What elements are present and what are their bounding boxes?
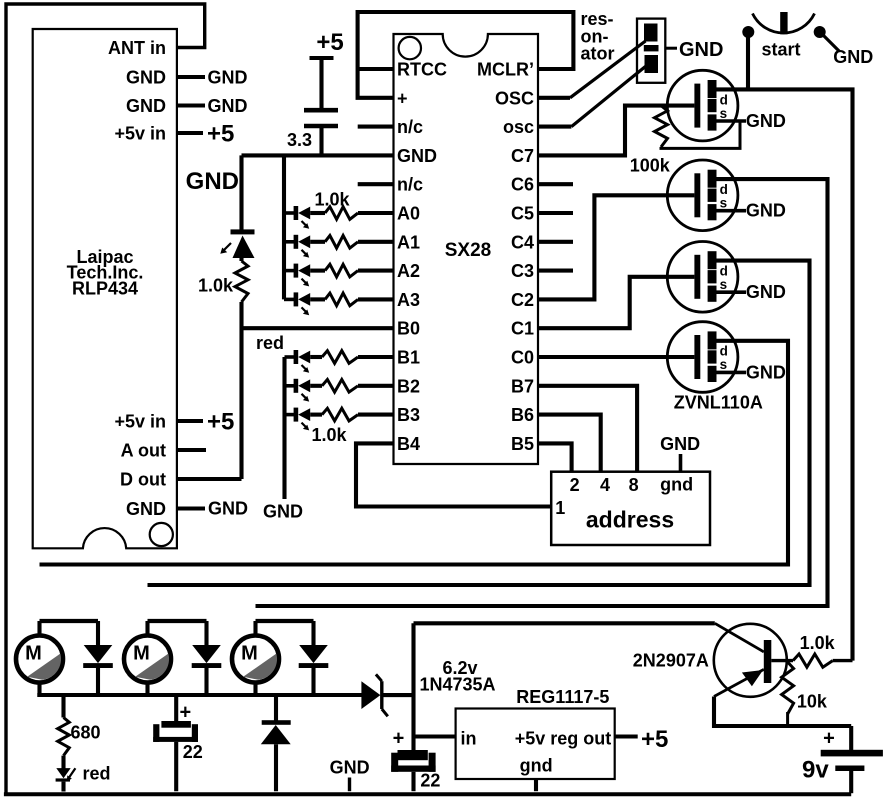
svg-text:GND: GND [679,39,723,61]
svg-text:GND: GND [208,96,248,116]
svg-text:+5v in: +5v in [114,412,166,432]
svg-text:A0: A0 [397,204,420,224]
svg-text:red: red [256,333,284,353]
svg-text:+: + [397,88,408,108]
svg-text:C7: C7 [511,146,534,166]
svg-text:ANT in: ANT in [108,38,166,58]
svg-text:+5v in: +5v in [114,124,166,144]
svg-text:GND: GND [397,146,437,166]
svg-text:REG1117-5: REG1117-5 [516,687,609,707]
svg-text:GND: GND [263,502,303,522]
svg-text:+5: +5 [641,726,668,753]
svg-text:+: + [393,728,405,750]
svg-text:GND: GND [746,201,786,221]
svg-text:9v: 9v [802,757,829,784]
svg-text:8: 8 [629,475,639,495]
svg-text:B3: B3 [397,405,420,425]
svg-text:s: s [720,277,728,292]
svg-text:C0: C0 [511,348,534,368]
svg-text:+5: +5 [207,121,234,148]
svg-text:GND: GND [208,68,248,88]
svg-text:1.0k: 1.0k [800,633,836,653]
svg-text:A1: A1 [397,232,420,252]
svg-text:osc: osc [503,117,534,137]
svg-text:C3: C3 [511,261,534,281]
svg-text:+5: +5 [316,29,343,56]
svg-text:C2: C2 [511,290,534,310]
svg-text:M: M [25,642,42,664]
svg-text:GND: GND [330,758,370,778]
svg-text:s: s [720,196,728,211]
svg-text:3.3: 3.3 [287,130,312,150]
svg-text:s: s [720,357,728,372]
svg-text:2: 2 [570,475,580,495]
svg-text:B7: B7 [511,376,534,396]
svg-text:4: 4 [600,475,610,495]
svg-text:s: s [720,106,728,121]
svg-text:+: + [179,702,191,724]
svg-text:D out: D out [120,470,166,490]
svg-text:A3: A3 [397,290,420,310]
svg-text:GND: GND [208,499,248,519]
svg-text:GND: GND [833,47,873,67]
svg-text:M: M [241,642,258,664]
svg-text:address: address [586,507,674,533]
svg-text:22: 22 [420,771,440,791]
svg-text:B4: B4 [397,434,420,454]
svg-text:GND: GND [746,111,786,131]
svg-text:1.0k: 1.0k [311,425,347,445]
svg-text:B1: B1 [397,348,420,368]
svg-text:GND: GND [746,362,786,382]
svg-text:SX28: SX28 [445,240,491,261]
svg-text:OSC: OSC [495,88,534,108]
svg-text:C6: C6 [511,175,534,195]
svg-text:+: + [823,728,835,750]
svg-text:n/c: n/c [397,117,423,137]
svg-text:100k: 100k [630,156,671,176]
svg-text:RTCC: RTCC [397,60,447,80]
svg-text:in: in [461,729,477,749]
svg-text:1: 1 [555,498,565,518]
svg-text:ZVNL110A: ZVNL110A [674,393,763,413]
svg-text:B2: B2 [397,376,420,396]
svg-text:C4: C4 [511,232,534,252]
svg-text:B5: B5 [511,434,534,454]
svg-text:1N4735A: 1N4735A [420,675,496,695]
svg-text:2N2907A: 2N2907A [633,651,709,671]
svg-text:GND: GND [126,96,166,116]
svg-text:gnd: gnd [520,756,553,776]
svg-text:red: red [83,763,111,783]
svg-text:GND: GND [126,68,166,88]
svg-text:+5: +5 [207,409,234,436]
svg-text:start: start [761,40,800,60]
svg-text:22: 22 [183,742,203,762]
svg-text:B6: B6 [511,405,534,425]
svg-text:M: M [133,642,150,664]
svg-text:680: 680 [71,723,101,743]
svg-text:A out: A out [121,441,166,461]
svg-text:n/c: n/c [397,175,423,195]
svg-text:MCLR’: MCLR’ [477,60,534,80]
svg-text:B0: B0 [397,319,420,339]
svg-text:1.0k: 1.0k [314,190,350,210]
svg-text:RLP434: RLP434 [72,279,138,299]
svg-text:GND: GND [660,434,700,454]
svg-text:C1: C1 [511,319,534,339]
svg-text:GND: GND [746,282,786,302]
svg-text:ator: ator [581,44,615,64]
svg-text:GND: GND [186,168,239,195]
svg-text:C5: C5 [511,204,534,224]
svg-text:10k: 10k [797,692,828,712]
svg-text:A2: A2 [397,261,420,281]
svg-text:gnd: gnd [660,475,693,495]
svg-text:GND: GND [126,499,166,519]
svg-text:1.0k: 1.0k [198,276,234,296]
svg-text:+5v reg out: +5v reg out [515,729,612,749]
